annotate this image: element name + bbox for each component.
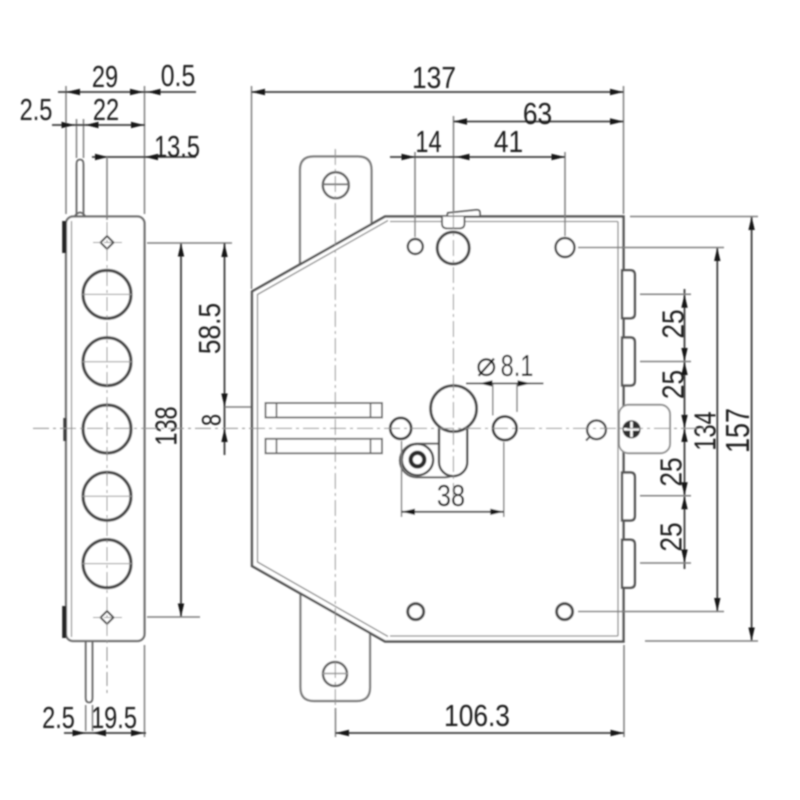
top pin (rod end) [77,160,84,218]
guide bar upper [266,403,383,418]
deadbolt 4 [622,540,635,588]
dim row 13.5 [92,156,196,158]
extension line right x144.5 [144,86,146,214]
dim 157 [751,217,753,642]
dim line 8.1 [466,382,544,384]
dim 38 [401,441,403,517]
dim 58.5 / 8 vertical [224,243,226,455]
hole circle 5 [83,540,131,588]
ext line body right [623,86,625,214]
main horizontal centerline [33,427,708,429]
svg-text:134: 134 [687,411,722,450]
top hole right [556,238,575,257]
weld tick 1 [62,221,66,253]
faceplate outline [66,217,145,642]
pin extension lines [76,119,78,158]
bottom mounting tab [301,588,371,701]
hole near right edge [587,420,606,439]
svg-text:13.5: 13.5 [154,129,200,164]
top hole left [408,239,423,254]
svg-text:14: 14 [415,124,441,159]
diamond centerline dashes [93,242,122,244]
svg-text:0.5: 0.5 [161,58,195,92]
svg-text:63: 63 [523,97,552,131]
svg-text:25: 25 [655,522,689,551]
deadbolt 3 [622,473,635,521]
central latch block [619,405,670,453]
body plate outline [252,217,624,642]
weld tick 2 (centerline) [63,418,66,441]
hole circle 1 [83,270,131,318]
hole right of cylinder [493,417,517,441]
diameter symbol [479,359,495,375]
dim 106.3 [335,708,337,737]
hole circle 2 [83,338,131,386]
diamond hole top [101,236,114,249]
dim row 2.5 / 22 [52,124,145,126]
svg-text:137: 137 [412,61,456,95]
deadbolt 1 [622,270,635,318]
bottom pin (rod end) [86,641,93,703]
top hole center (cylinder screw) [437,232,469,264]
svg-text:8.1: 8.1 [501,348,534,383]
tab vertical centerline [334,149,336,712]
ext line cylinder center [453,116,455,213]
svg-text:157: 157 [721,408,757,453]
svg-text:2.5: 2.5 [20,92,53,127]
notch below top edge [442,217,465,229]
ext line body left corner [251,86,253,289]
dim 14 / 41 [390,156,565,158]
dim row 29 / 0.5 [58,91,196,93]
top mounting tab [300,157,372,271]
dim 137 [252,91,624,93]
dim 134 [716,248,718,612]
connectors for 25-chain [640,293,691,295]
guide bar lower [266,439,383,454]
deadbolt 2 [622,338,635,386]
svg-text:25: 25 [655,457,689,486]
svg-text:19.5: 19.5 [91,700,137,735]
top edge protrusion (latch trigger) [447,210,480,216]
circle center dash marks [82,294,132,563]
latch phillips screw [623,421,640,438]
weld tick 4 [62,606,66,638]
svg-text:8: 8 [197,414,227,426]
dim 138 vertical [180,243,182,617]
dim 63 [454,121,624,123]
bottom tab hole [323,662,347,686]
top tab screw slot [322,183,350,185]
cylinder head circle [431,386,477,432]
extension line left x66 [65,86,67,214]
svg-text:25: 25 [657,370,691,399]
svg-text:29: 29 [92,59,118,94]
top tab hole [323,172,349,198]
cylinder stem [439,425,467,476]
svg-text:58.5: 58.5 [193,303,227,354]
bottom hole right [557,604,573,620]
svg-text:106.3: 106.3 [444,699,510,733]
hole circle 3 [83,405,131,453]
svg-text:38: 38 [437,479,465,514]
diamond hole bottom [101,611,114,624]
right 25-chain dim line [684,289,686,569]
faceplate centerline vertical [106,222,108,696]
hole circle 4 [83,472,131,520]
top pin base fillet [75,213,86,217]
svg-text:2.5: 2.5 [42,700,75,735]
svg-text:41: 41 [494,125,523,159]
ext lines top holes [414,152,416,237]
cylinder vertical centerline [452,213,454,497]
svg-text:22: 22 [93,92,119,127]
body inner fold lines [390,221,618,223]
svg-text:138: 138 [148,406,183,445]
cylinder cam capsule [400,444,462,478]
faceplate inner left fold line [71,221,73,637]
bottom tab screw slot [323,673,349,675]
dim row 2.5 / 19.5 bottom [64,732,146,734]
bottom pin extension lines [85,705,87,731]
cylinder fixing screw [402,444,433,475]
hole left of cylinder [390,418,411,439]
bottom hole left [408,604,424,620]
svg-text:25: 25 [657,309,691,338]
